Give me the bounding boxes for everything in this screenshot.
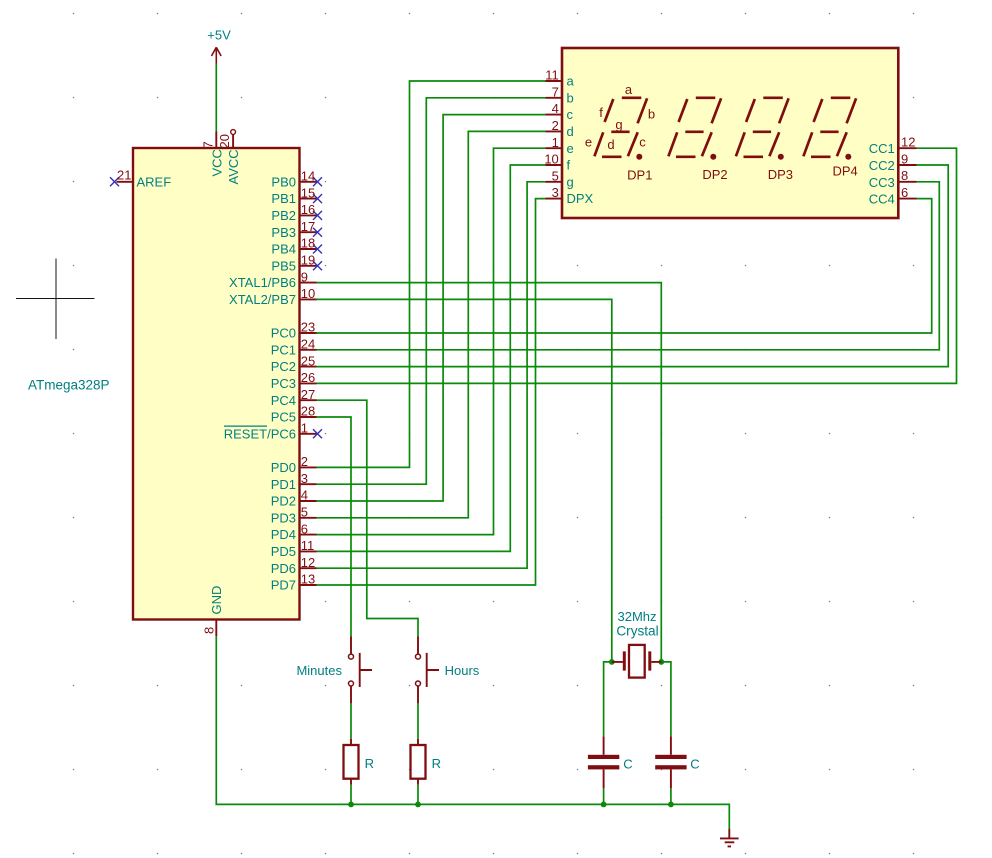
svg-text:11: 11 [545, 68, 559, 83]
svg-text:a: a [567, 74, 575, 89]
svg-text:12: 12 [301, 555, 315, 570]
svg-text:PB0: PB0 [271, 174, 296, 189]
svg-text:b: b [648, 106, 655, 121]
svg-text:PD7: PD7 [271, 578, 296, 593]
svg-text:PC1: PC1 [271, 342, 296, 357]
svg-text:VCC: VCC [209, 149, 224, 176]
svg-text:a: a [625, 82, 633, 97]
svg-text:e: e [585, 135, 592, 150]
svg-text:11: 11 [301, 538, 315, 553]
svg-text:17: 17 [301, 219, 315, 234]
svg-text:5: 5 [301, 505, 308, 520]
svg-text:PD3: PD3 [271, 510, 296, 525]
svg-text:28: 28 [301, 404, 315, 419]
svg-text:DP4: DP4 [832, 164, 857, 179]
svg-text:d: d [567, 124, 574, 139]
svg-text:Hours: Hours [445, 663, 480, 678]
svg-text:Minutes: Minutes [296, 663, 342, 678]
svg-text:f: f [599, 105, 603, 120]
svg-text:18: 18 [301, 236, 315, 251]
svg-text:f: f [567, 158, 571, 173]
svg-text:3: 3 [301, 471, 308, 486]
svg-text:AVCC: AVCC [226, 149, 241, 184]
svg-text:R: R [365, 756, 374, 771]
svg-text:21: 21 [117, 168, 131, 183]
svg-text:e: e [567, 141, 574, 156]
svg-text:13: 13 [301, 572, 315, 587]
svg-text:C: C [690, 756, 699, 771]
svg-text:9: 9 [901, 151, 908, 166]
svg-text:1: 1 [301, 421, 308, 436]
svg-text:1: 1 [552, 135, 559, 150]
svg-text:4: 4 [301, 488, 308, 503]
svg-text:c: c [567, 107, 574, 122]
svg-text:6: 6 [901, 185, 908, 200]
svg-text:20: 20 [217, 134, 232, 148]
svg-text:PB4: PB4 [271, 242, 296, 257]
svg-text:g: g [615, 117, 622, 132]
svg-text:ATmega328P: ATmega328P [28, 378, 110, 393]
svg-text:DP2: DP2 [702, 167, 727, 182]
svg-text:5: 5 [552, 168, 559, 183]
svg-text:25: 25 [301, 353, 315, 368]
svg-text:2: 2 [301, 454, 308, 469]
svg-text:7: 7 [200, 141, 215, 148]
svg-text:PC4: PC4 [271, 393, 296, 408]
svg-text:10: 10 [301, 286, 315, 301]
svg-text:14: 14 [301, 169, 315, 184]
svg-text:PC0: PC0 [271, 326, 296, 341]
svg-text:PD5: PD5 [271, 544, 296, 559]
svg-text:AREF: AREF [137, 174, 172, 189]
svg-text:CC2: CC2 [869, 158, 895, 173]
svg-text:PB5: PB5 [271, 258, 296, 273]
svg-text:Crystal: Crystal [616, 623, 658, 638]
svg-text:PC2: PC2 [271, 359, 296, 374]
svg-text:PD2: PD2 [271, 494, 296, 509]
svg-text:PB3: PB3 [271, 225, 296, 240]
svg-text:32Mhz: 32Mhz [617, 609, 656, 624]
svg-text:15: 15 [301, 185, 315, 200]
svg-text:10: 10 [544, 152, 558, 167]
svg-text:8: 8 [901, 168, 908, 183]
svg-text:PC5: PC5 [271, 410, 296, 425]
svg-text:RESET/PC6: RESET/PC6 [224, 426, 296, 441]
svg-text:23: 23 [301, 320, 315, 335]
svg-text:DP3: DP3 [768, 167, 793, 182]
svg-text:2: 2 [552, 118, 559, 133]
svg-text:PB2: PB2 [271, 208, 296, 223]
svg-text:PD0: PD0 [271, 460, 296, 475]
svg-text:3: 3 [552, 185, 559, 200]
svg-text:XTAL2/PB7: XTAL2/PB7 [229, 292, 296, 307]
svg-text:CC3: CC3 [869, 175, 895, 190]
svg-text:d: d [607, 137, 614, 152]
svg-text:24: 24 [301, 337, 315, 352]
svg-text:19: 19 [301, 253, 315, 268]
svg-text:PD4: PD4 [271, 527, 296, 542]
svg-text:7: 7 [552, 84, 559, 99]
svg-text:PB1: PB1 [271, 191, 296, 206]
svg-text:XTAL1/PB6: XTAL1/PB6 [229, 275, 296, 290]
svg-text:PD1: PD1 [271, 477, 296, 492]
svg-text:b: b [567, 90, 574, 105]
svg-text:26: 26 [301, 370, 315, 385]
svg-text:g: g [567, 174, 574, 189]
svg-text:6: 6 [301, 521, 308, 536]
svg-text:27: 27 [301, 387, 315, 402]
svg-text:8: 8 [202, 627, 217, 634]
svg-text:+5V: +5V [207, 28, 231, 43]
svg-text:12: 12 [901, 135, 915, 150]
svg-text:C: C [623, 756, 632, 771]
svg-text:CC4: CC4 [869, 192, 895, 207]
svg-text:DP1: DP1 [627, 168, 652, 183]
svg-text:CC1: CC1 [869, 141, 895, 156]
svg-text:PC3: PC3 [271, 376, 296, 391]
svg-text:GND: GND [209, 586, 224, 615]
svg-text:DPX: DPX [567, 191, 594, 206]
svg-text:16: 16 [301, 202, 315, 217]
svg-text:PD6: PD6 [271, 561, 296, 576]
svg-text:4: 4 [552, 101, 559, 116]
svg-text:9: 9 [301, 269, 308, 284]
svg-text:R: R [432, 756, 441, 771]
svg-text:c: c [639, 135, 646, 150]
